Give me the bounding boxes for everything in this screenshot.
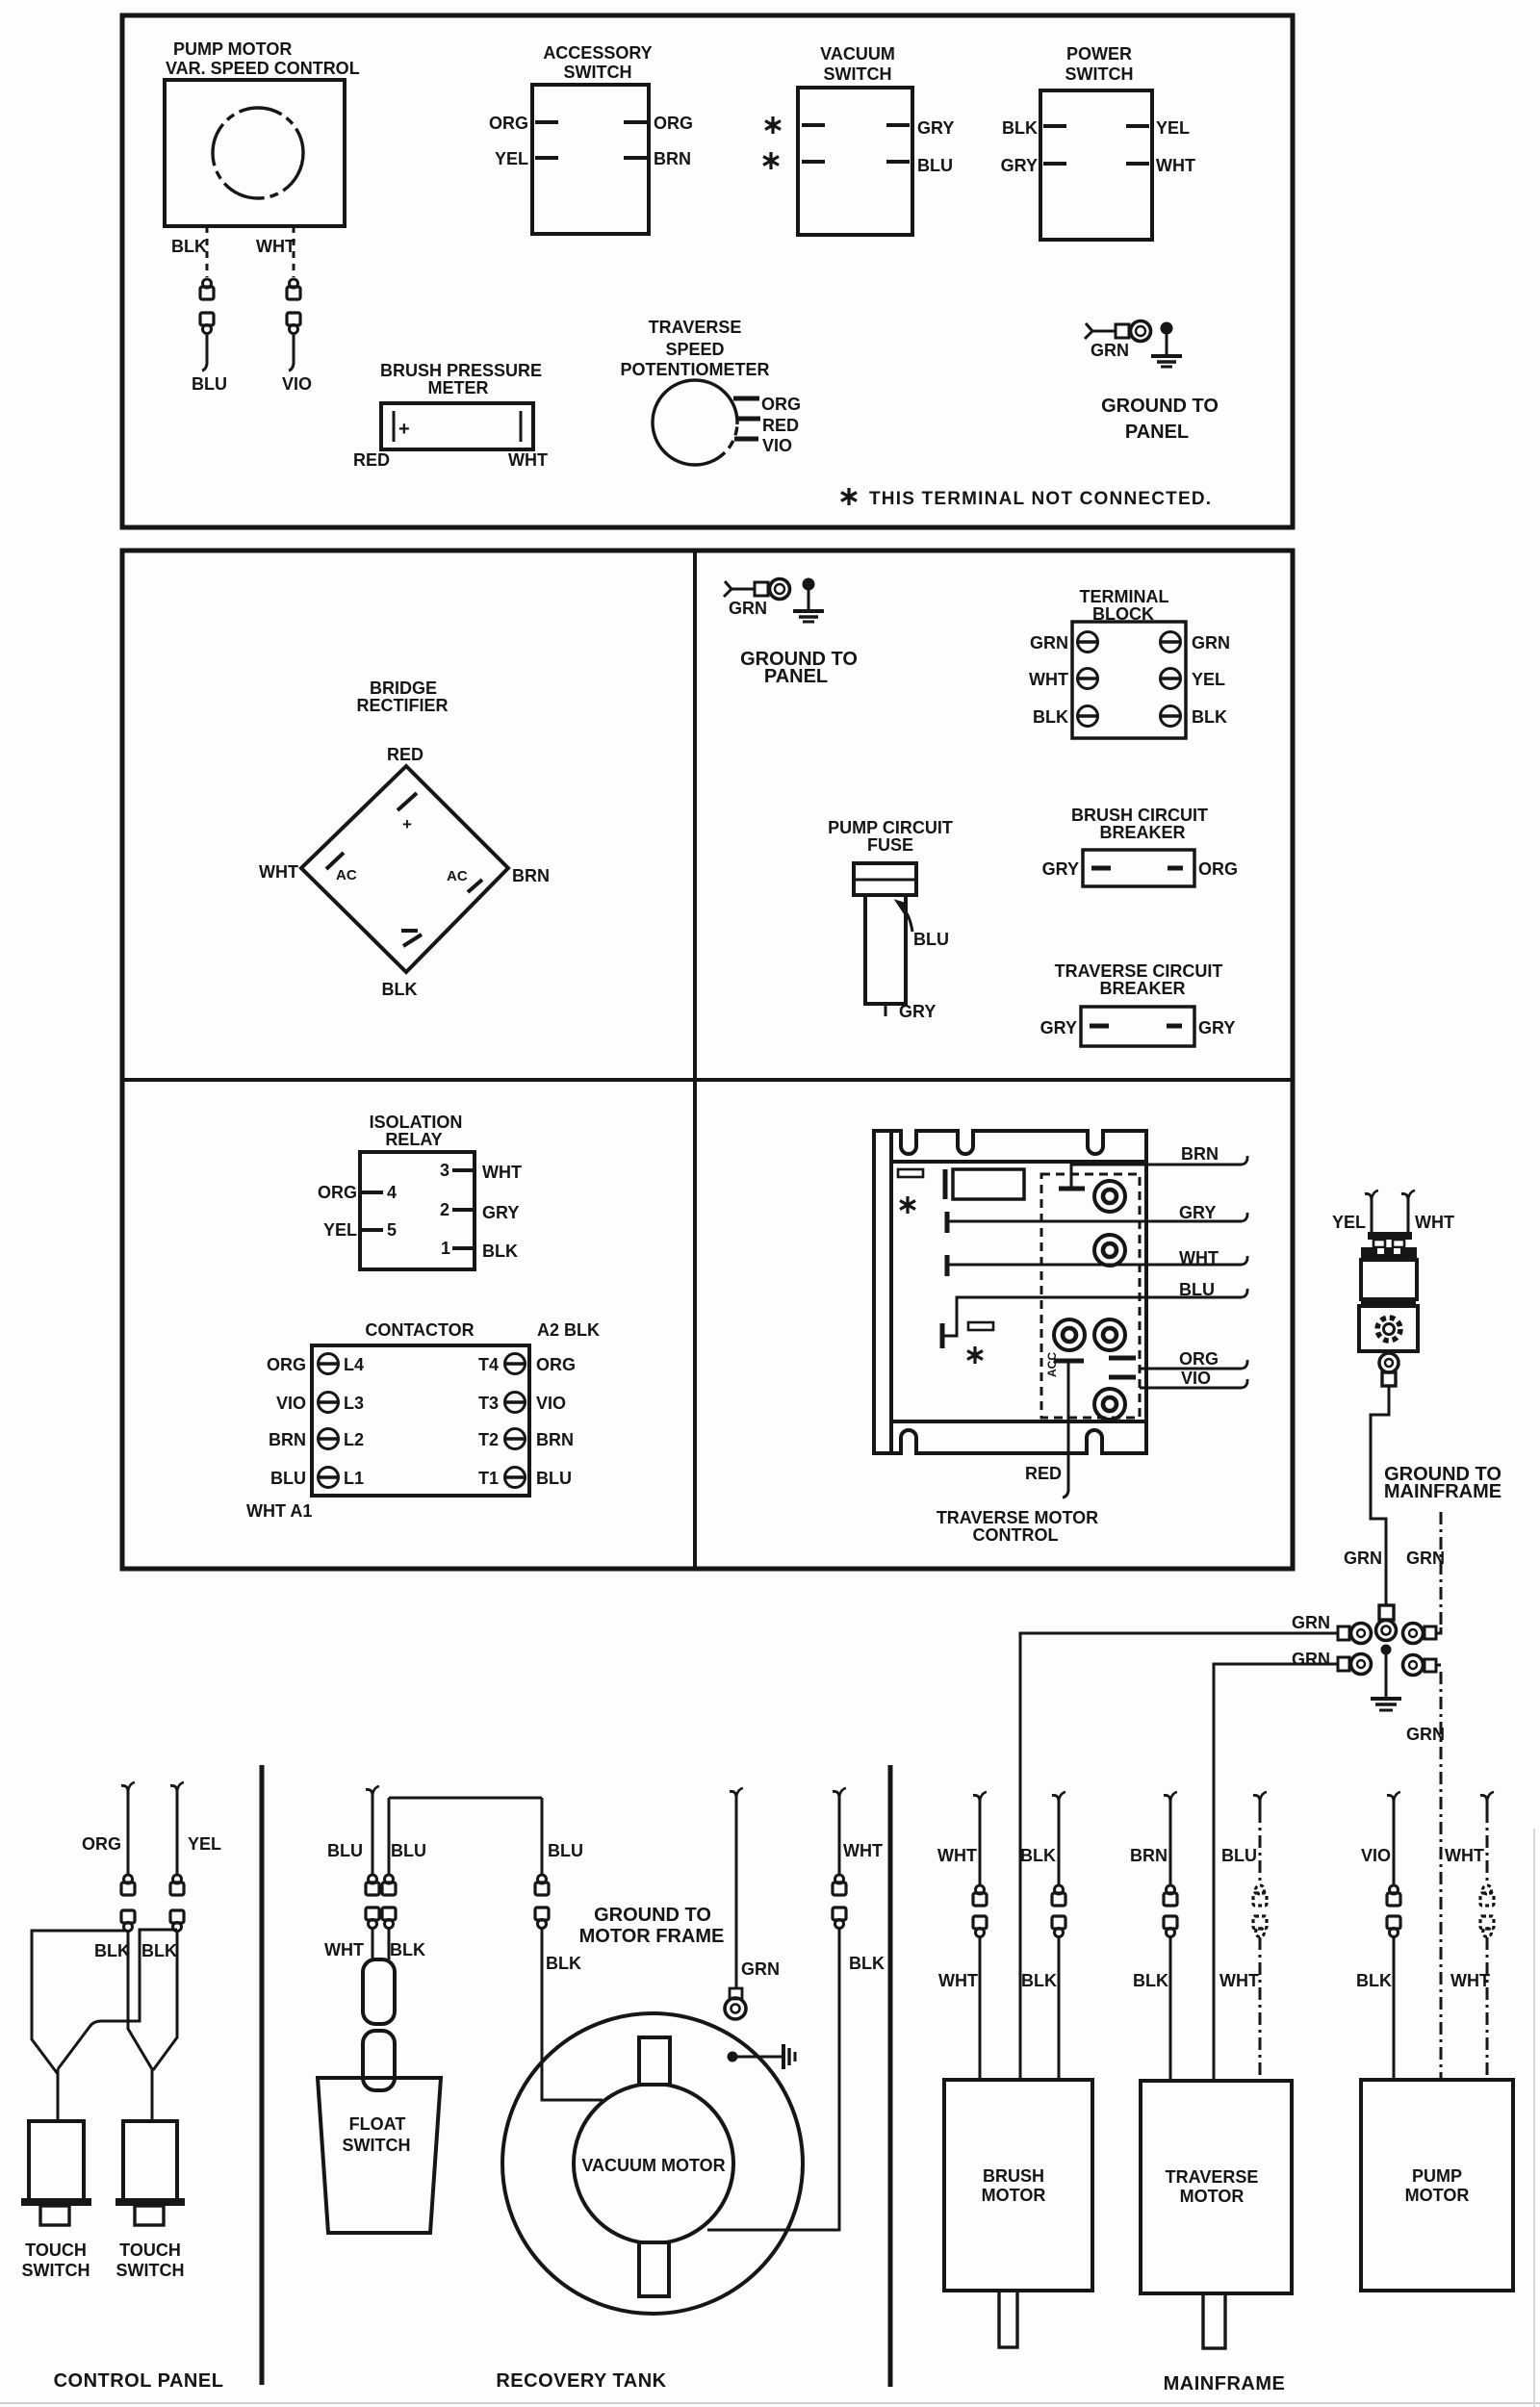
svg-text:MOTOR: MOTOR: [982, 2186, 1046, 2205]
svg-text:GRN: GRN: [1091, 341, 1129, 360]
svg-text:ACC: ACC: [1045, 1352, 1059, 1377]
svg-text:ORG: ORG: [1179, 1349, 1219, 1369]
svg-text:L2: L2: [344, 1430, 364, 1449]
svg-text:3: 3: [440, 1161, 449, 1180]
svg-text:GRN: GRN: [1344, 1549, 1382, 1568]
svg-text:4: 4: [387, 1183, 397, 1202]
svg-text:GRY: GRY: [899, 1002, 936, 1021]
svg-text:TRAVERSE MOTOR: TRAVERSE MOTOR: [937, 1508, 1098, 1527]
svg-text:GRY: GRY: [1179, 1203, 1216, 1222]
svg-text:ORG: ORG: [318, 1183, 357, 1202]
svg-text:VACUUM: VACUUM: [820, 44, 895, 64]
svg-text:GROUND TO: GROUND TO: [1101, 396, 1219, 417]
svg-text:POWER: POWER: [1066, 44, 1132, 64]
svg-text:GRN: GRN: [1292, 1650, 1330, 1669]
svg-text:FUSE: FUSE: [867, 835, 913, 855]
svg-text:RED: RED: [387, 745, 423, 764]
svg-text:ACCESSORY: ACCESSORY: [543, 43, 652, 63]
svg-text:METER: METER: [428, 378, 489, 397]
svg-text:MAINFRAME: MAINFRAME: [1164, 2373, 1286, 2394]
svg-text:THIS TERMINAL NOT CONNECTED.: THIS TERMINAL NOT CONNECTED.: [869, 489, 1212, 509]
svg-text:SWITCH: SWITCH: [564, 63, 632, 82]
svg-text:POTENTIOMETER: POTENTIOMETER: [620, 360, 769, 379]
svg-text:WHT: WHT: [1415, 1213, 1454, 1232]
svg-text:BRN: BRN: [1130, 1846, 1168, 1865]
svg-text:CONTROL: CONTROL: [973, 1525, 1059, 1545]
svg-text:ORG: ORG: [654, 114, 693, 133]
svg-text:GRY: GRY: [917, 118, 954, 138]
svg-text:BRN: BRN: [654, 149, 691, 168]
svg-text:PUMP CIRCUIT: PUMP CIRCUIT: [828, 818, 953, 837]
svg-text:CONTROL PANEL: CONTROL PANEL: [54, 2370, 224, 2392]
svg-text:VIO: VIO: [1181, 1369, 1211, 1388]
svg-text:RELAY: RELAY: [385, 1130, 442, 1149]
svg-text:RECOVERY TANK: RECOVERY TANK: [496, 2370, 666, 2392]
svg-text:GRN: GRN: [729, 599, 767, 618]
svg-text:BLK: BLK: [390, 1940, 425, 1959]
svg-text:WHT: WHT: [1156, 156, 1195, 175]
svg-text:TRAVERSE: TRAVERSE: [649, 318, 742, 337]
svg-text:PUMP: PUMP: [1412, 2166, 1462, 2186]
svg-text:BLK: BLK: [1133, 1971, 1168, 1990]
svg-text:BLU: BLU: [327, 1841, 363, 1860]
svg-text:YEL: YEL: [323, 1220, 357, 1240]
svg-text:T3: T3: [478, 1394, 499, 1413]
svg-text:GRY: GRY: [1001, 156, 1038, 175]
svg-text:GROUND TO: GROUND TO: [594, 1905, 711, 1926]
svg-text:PANEL: PANEL: [764, 666, 828, 687]
svg-text:PUMP MOTOR: PUMP MOTOR: [173, 39, 292, 59]
svg-text:GRN: GRN: [1292, 1613, 1330, 1632]
svg-text:BLK: BLK: [94, 1941, 130, 1960]
svg-text:BLU: BLU: [192, 374, 227, 394]
svg-text:RED: RED: [1025, 1464, 1062, 1483]
svg-text:BLU: BLU: [548, 1841, 583, 1860]
svg-text:BLK: BLK: [1356, 1971, 1392, 1990]
svg-text:GRN: GRN: [1406, 1549, 1445, 1568]
svg-text:ORG: ORG: [489, 114, 528, 133]
svg-text:BLU: BLU: [536, 1469, 572, 1488]
svg-text:ORG: ORG: [82, 1834, 121, 1854]
svg-text:SWITCH: SWITCH: [343, 2136, 411, 2155]
svg-text:TRAVERSE CIRCUIT: TRAVERSE CIRCUIT: [1055, 961, 1223, 981]
svg-text:BLU: BLU: [1221, 1846, 1257, 1865]
svg-text:BLU: BLU: [391, 1841, 426, 1860]
svg-text:TRAVERSE: TRAVERSE: [1166, 2167, 1259, 2187]
svg-text:WHT: WHT: [843, 1841, 883, 1860]
svg-text:AC: AC: [447, 868, 468, 884]
svg-text:+: +: [398, 419, 410, 440]
svg-text:WHT: WHT: [1450, 1971, 1490, 1990]
svg-text:GRY: GRY: [1198, 1018, 1235, 1037]
svg-text:L1: L1: [344, 1469, 364, 1488]
svg-text:L3: L3: [344, 1394, 364, 1413]
svg-text:BRN: BRN: [269, 1430, 306, 1449]
svg-text:+: +: [402, 815, 412, 833]
svg-text:T1: T1: [478, 1469, 499, 1488]
svg-text:RED: RED: [762, 416, 799, 435]
svg-text:BRN: BRN: [512, 866, 550, 885]
svg-text:BREAKER: BREAKER: [1099, 979, 1185, 998]
svg-text:BRUSH CIRCUIT: BRUSH CIRCUIT: [1071, 806, 1208, 825]
svg-text:CONTACTOR: CONTACTOR: [365, 1320, 474, 1340]
svg-text:2: 2: [440, 1200, 449, 1219]
svg-text:BLU: BLU: [917, 156, 953, 175]
svg-text:BLK: BLK: [1033, 707, 1068, 727]
svg-text:BLU: BLU: [1179, 1280, 1215, 1299]
svg-text:BRIDGE: BRIDGE: [370, 679, 437, 698]
svg-text:BLU: BLU: [270, 1469, 306, 1488]
svg-text:WHT: WHT: [938, 1971, 978, 1990]
svg-text:T4: T4: [478, 1355, 499, 1374]
svg-text:VIO: VIO: [276, 1394, 306, 1413]
svg-text:1: 1: [441, 1239, 450, 1258]
svg-text:YEL: YEL: [495, 149, 528, 168]
svg-text:YEL: YEL: [1156, 118, 1190, 138]
svg-text:WHT: WHT: [259, 862, 298, 882]
svg-text:WHT: WHT: [1179, 1248, 1219, 1268]
svg-text:MAINFRAME: MAINFRAME: [1384, 1481, 1501, 1502]
svg-text:WHT A1: WHT A1: [246, 1501, 312, 1521]
svg-text:GRY: GRY: [482, 1203, 519, 1222]
svg-text:SWITCH: SWITCH: [1065, 64, 1134, 84]
svg-text:VAR. SPEED CONTROL: VAR. SPEED CONTROL: [166, 59, 360, 78]
svg-text:BLK: BLK: [171, 237, 207, 256]
svg-text:WHT: WHT: [324, 1940, 364, 1959]
svg-text:VIO: VIO: [1361, 1846, 1391, 1865]
svg-text:ORG: ORG: [536, 1355, 576, 1374]
svg-text:WHT: WHT: [1445, 1846, 1484, 1865]
svg-text:VIO: VIO: [762, 436, 792, 455]
svg-text:BRN: BRN: [1181, 1144, 1219, 1164]
svg-text:WHT: WHT: [482, 1163, 522, 1182]
svg-text:T2: T2: [478, 1430, 499, 1449]
svg-text:ORG: ORG: [267, 1355, 306, 1374]
svg-text:BRN: BRN: [536, 1430, 574, 1449]
svg-text:TERMINAL: TERMINAL: [1080, 587, 1169, 606]
svg-text:A2 BLK: A2 BLK: [537, 1320, 600, 1340]
svg-text:BLK: BLK: [141, 1941, 177, 1960]
svg-text:ORG: ORG: [761, 395, 801, 414]
svg-text:SPEED: SPEED: [665, 340, 724, 359]
svg-text:VIO: VIO: [282, 374, 312, 394]
svg-text:VACUUM MOTOR: VACUUM MOTOR: [581, 2156, 725, 2175]
svg-text:PANEL: PANEL: [1125, 422, 1189, 443]
svg-text:RECTIFIER: RECTIFIER: [356, 696, 448, 715]
svg-text:YEL: YEL: [1332, 1213, 1366, 1232]
svg-text:BRUSH PRESSURE: BRUSH PRESSURE: [380, 361, 542, 380]
svg-text:YEL: YEL: [1192, 670, 1225, 689]
svg-text:BLK: BLK: [1020, 1846, 1056, 1865]
svg-text:SWITCH: SWITCH: [824, 64, 892, 84]
svg-text:SWITCH: SWITCH: [116, 2261, 185, 2280]
svg-text:GRN: GRN: [1406, 1725, 1445, 1744]
svg-text:VIO: VIO: [536, 1394, 566, 1413]
svg-text:BLK: BLK: [482, 1242, 518, 1261]
svg-text:ORG: ORG: [1198, 859, 1238, 879]
svg-text:FLOAT: FLOAT: [349, 2114, 406, 2134]
svg-text:MOTOR FRAME: MOTOR FRAME: [579, 1926, 725, 1947]
svg-text:5: 5: [387, 1220, 397, 1240]
svg-text:L4: L4: [344, 1355, 364, 1374]
svg-text:BLK: BLK: [849, 1954, 885, 1973]
svg-text:BLK: BLK: [1021, 1971, 1057, 1990]
svg-text:SWITCH: SWITCH: [22, 2261, 90, 2280]
svg-text:TOUCH: TOUCH: [119, 2241, 181, 2260]
svg-text:BLU: BLU: [913, 930, 949, 949]
svg-text:GRN: GRN: [741, 1959, 780, 1979]
svg-text:GRY: GRY: [1040, 1018, 1077, 1037]
svg-text:BLK: BLK: [546, 1954, 581, 1973]
svg-text:RED: RED: [353, 450, 390, 470]
svg-text:BLK: BLK: [1002, 118, 1038, 138]
svg-text:MOTOR: MOTOR: [1405, 2186, 1470, 2205]
svg-text:GRN: GRN: [1192, 633, 1230, 653]
svg-text:GRN: GRN: [1030, 633, 1068, 653]
svg-text:AC: AC: [336, 867, 357, 883]
svg-text:WHT: WHT: [256, 237, 295, 256]
svg-text:BRUSH: BRUSH: [983, 2166, 1044, 2186]
svg-text:BREAKER: BREAKER: [1099, 823, 1185, 842]
svg-text:BLK: BLK: [382, 980, 418, 999]
svg-text:BLK: BLK: [1192, 707, 1227, 727]
svg-text:TOUCH: TOUCH: [25, 2241, 87, 2260]
svg-text:MOTOR: MOTOR: [1180, 2187, 1245, 2206]
svg-text:WHT: WHT: [1219, 1971, 1259, 1990]
svg-text:GRY: GRY: [1042, 859, 1079, 879]
svg-text:WHT: WHT: [508, 450, 548, 470]
svg-text:ISOLATION: ISOLATION: [370, 1113, 463, 1132]
svg-text:WHT: WHT: [937, 1846, 977, 1865]
svg-text:YEL: YEL: [188, 1834, 221, 1854]
svg-text:WHT: WHT: [1029, 670, 1068, 689]
